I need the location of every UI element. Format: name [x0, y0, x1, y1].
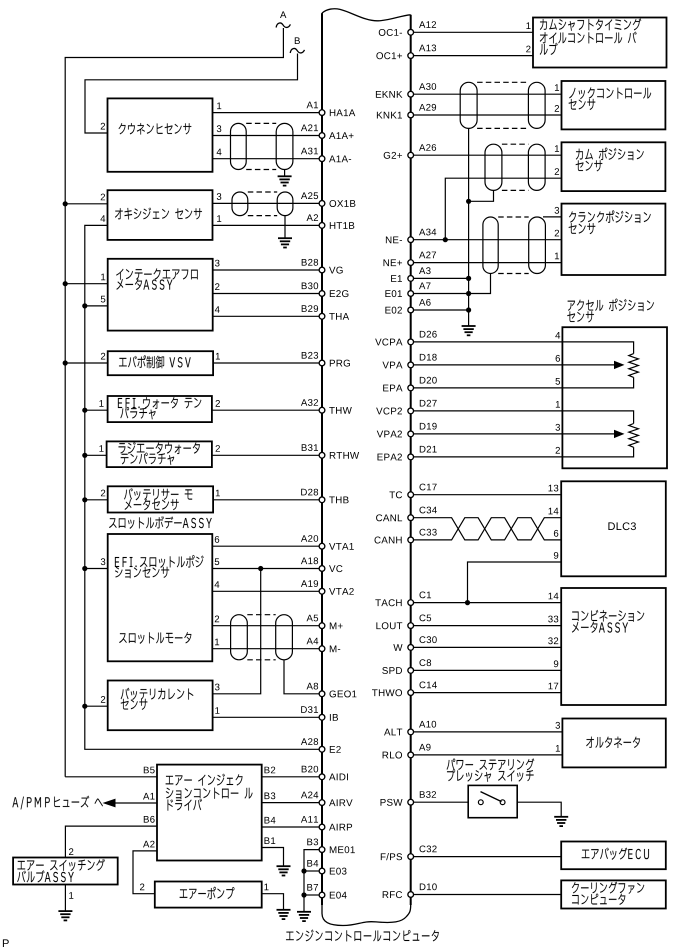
potentiometer 1 resistor element — [629, 354, 639, 378]
shielded cable for crank position sensor — [483, 217, 498, 274]
wire oxygen sensor pin3 to ECU A25 OX1B — [213, 202, 320, 204]
shielded cable for oxygen sensor pin 3 — [232, 192, 248, 216]
shield drain wire to ECU A8 GEO1 — [284, 660, 319, 694]
air switching valve assy box — [13, 858, 118, 885]
wire ECU D10 RFC to cooling fan computer — [413, 894, 561, 896]
ECU right pin C32 F/PS — [408, 854, 414, 860]
ECU right pin D20 EPA — [408, 385, 414, 391]
ECU right pin C17 TC — [408, 492, 414, 498]
wire ECU D19 VPA2 to pot2 wiper arrow — [413, 433, 615, 435]
cam position sensor box — [562, 142, 666, 191]
junction dot battery thermo — [82, 497, 87, 502]
wire ECU D26 VCPA to accel sensor pin4 and pot1 top — [413, 342, 633, 354]
switch lever — [481, 792, 502, 802]
wire evap VSV pin2 to +B bus — [65, 362, 108, 364]
wire intake pin4 to ECU B29 THA — [213, 315, 320, 317]
pot2 wiper arrow — [614, 430, 625, 438]
wire radiator water temp pin1 to E2 bus — [85, 454, 107, 456]
wire ECU A12 OC1- to cam valve pin1 — [413, 31, 533, 33]
wire ECU B32 PSW to switch — [413, 801, 468, 803]
sensor ground stem — [468, 310, 470, 326]
wire driver A1 to A/PMP fuse with arrow — [113, 802, 157, 804]
wire ECU A26 G2+ to cam position sensor pin1 — [413, 154, 561, 156]
wire pot2 bottom to ECU D21 EPA2 pin2 — [413, 447, 633, 457]
wire driver B6 down to air switching valve pin2 — [65, 826, 157, 857]
ECU left pin B20 AIDI — [319, 774, 325, 780]
wire valve pin1 to ground — [64, 885, 66, 912]
throttle body assy label — [109, 518, 116, 528]
air pump box — [155, 882, 262, 908]
wire throttle pin6 to ECU A20 VTA1 — [212, 545, 319, 547]
wire VC junction down to battery current sensor pin3 — [213, 569, 261, 694]
wire cam position sensor pin2 to NE- junction — [445, 178, 561, 240]
wire intake pin5 to E2 bus — [85, 305, 108, 307]
ECU left pin A19 VTA2 — [319, 588, 325, 594]
crank shield drain to E01 junction — [469, 274, 491, 294]
ground — [278, 176, 292, 185]
wire evap VSV pin1 to ECU B23 PRG — [213, 362, 319, 364]
ECU left pin A20 VTA1 — [319, 543, 325, 549]
wire driver B1 to ground — [262, 848, 284, 867]
intake air flow meter assy box — [108, 259, 213, 331]
accelerator position sensor label — [568, 301, 575, 311]
ECU right pin C8 SPD — [408, 668, 414, 674]
wire driver A2 to air pump pin2 — [133, 851, 157, 894]
junction dot throttle pin3 — [82, 566, 87, 571]
junction dot cam shield drain — [466, 199, 471, 204]
wire ECU A27 NE+ to crank sensor pin1 — [413, 262, 561, 264]
ground for sensor grounds E1 E01 E02 — [462, 326, 476, 335]
wire intake pin1 to +B bus — [65, 283, 108, 285]
knock control sensor box — [562, 81, 666, 129]
wire E04 to ground bus — [304, 894, 319, 896]
ECU right pin D26 VCPA — [408, 339, 414, 345]
ground for air pump — [277, 910, 291, 919]
wire bus E2 sensor-ground from oxygen sensor pin 4 to ECU pin A28 E2 — [85, 225, 319, 749]
junction dot EFI water temp — [82, 408, 87, 413]
cooling fan computer box — [561, 880, 666, 908]
ECU left pin B23 PRG — [319, 360, 325, 366]
wire battery current pin2 to E2 bus — [85, 705, 108, 707]
wire EFI water temp pin1 to E2 bus — [85, 409, 108, 411]
wire ECU A13 OC1+ to cam valve pin2 — [413, 55, 533, 57]
ECU right pin A26 G2+ — [408, 152, 414, 158]
wire throttle pin4 to ECU A19 VTA2 — [212, 590, 319, 592]
wire bus A (+B) from break A — [65, 28, 283, 777]
wire ECU D27 VCP2 to accel sensor pin1 and pot2 top — [413, 411, 633, 424]
ECU left pin A2 HT1B — [319, 223, 325, 229]
ECU right pin A9 RLO — [408, 752, 414, 758]
wire intake pin2 to ECU B30 E2G — [213, 293, 320, 295]
wire intake pin3 to ECU B28 VG — [213, 269, 320, 271]
ECU left pin A11 AIRP — [319, 824, 325, 830]
wire oxygen sensor pin2 to +B bus — [65, 203, 107, 205]
pot1 wiper arrow — [614, 361, 625, 369]
ground for driver B1 — [277, 866, 291, 875]
ECU right pin C30 W — [408, 645, 414, 651]
ECU left pin A4 M- — [319, 646, 325, 652]
power steering pressure switch box — [468, 785, 517, 817]
wire ECU A30 EKNK to knock sensor pin1 — [413, 93, 561, 95]
wire switch to ground — [517, 802, 561, 817]
airbag ECU box — [561, 842, 666, 870]
wire ECU C8 SPD to meter pin9 — [413, 669, 561, 671]
ECU left pin B3 ME01 — [319, 847, 325, 853]
shielded cable for cam position sensor — [485, 144, 502, 190]
ECU right pin C1 TACH — [408, 600, 414, 606]
ECU left pin B4 E03 — [319, 868, 325, 874]
ECU left pin B29 THA — [319, 313, 325, 319]
ECU left pin A8 GEO1 — [319, 691, 325, 697]
knock shield drain down to sensor ground junction — [468, 128, 470, 310]
wire DLC3 pin9 down to TACH wire — [468, 562, 562, 603]
wire pot1 bottom to ECU D20 EPA pin5 — [413, 377, 633, 388]
ECU left pin A32 THW — [319, 407, 325, 413]
page letter P — [3, 939, 9, 947]
ECU right pin C34 CANL — [408, 515, 414, 521]
ECU right pin C5 LOUT — [408, 623, 414, 629]
cam shield drain to knock drain junction — [469, 190, 494, 201]
junction dot on NE- wire — [443, 237, 448, 242]
ECU right pin D10 RFC — [408, 892, 414, 898]
shielded cable for knock sensor — [460, 82, 477, 128]
wire ME01 from ECU to ground bus — [304, 850, 319, 912]
wire driver B2 to ECU B20 AIDI — [262, 776, 320, 778]
wire EFI water temp pin2 to ECU A32 THW — [212, 409, 320, 411]
ECU left pin D28 THB — [319, 497, 325, 503]
camshaft timing oil control valve box — [533, 18, 667, 68]
break symbol B — [290, 48, 304, 53]
wire ECU C32 F/PS to airbag ECU — [413, 856, 561, 858]
EFI water temperature sensor box — [108, 396, 212, 422]
radiator water temperature sensor box — [107, 441, 212, 467]
combination meter assy box — [561, 588, 666, 705]
ECU left pin A24 AIRV — [319, 800, 325, 806]
battery current sensor box — [108, 681, 213, 731]
junction dot intake pin1 — [63, 281, 68, 286]
junction dot evap pin2 — [63, 360, 68, 365]
potentiometer 2 resistor element — [629, 424, 639, 448]
junction dot oxygen pin2 — [63, 201, 68, 206]
ECU left pin A1 HA1A — [319, 110, 325, 116]
ECU right pin C14 THWO — [408, 690, 414, 696]
ground for air switching valve — [58, 911, 72, 920]
wire driver B3 to ECU A24 AIRV — [262, 802, 320, 804]
wire driver B4 to ECU A11 AIRP — [262, 826, 320, 828]
ground for ME01 E03 E04 — [297, 912, 311, 921]
ECU left pin A25 OX1B — [319, 201, 325, 207]
crank position sensor box — [562, 204, 666, 275]
evap control VSV box — [108, 351, 213, 375]
shielded cable for throttle motor wires — [231, 615, 248, 660]
ECU right pin D18 VPA — [408, 362, 414, 368]
engine control computer label — [286, 932, 294, 941]
wire ECU D18 VPA to pot1 wiper arrow — [413, 364, 615, 366]
ECU right pin A10 ALT — [408, 729, 414, 735]
ECU right pin D19 VPA2 — [408, 431, 414, 437]
throttle body box with throttle position sensor and throttle motor — [108, 534, 213, 661]
junction dot on TACH wire — [465, 600, 470, 605]
wire ECU A34 NE- to crank sensor pin2 — [413, 239, 561, 241]
wire air pump pin1 to ground — [262, 894, 284, 910]
wire A/F sensor pin1 to ECU A1 HA1A — [213, 112, 320, 114]
wire throttle motor pin1 to ECU A4 M- — [212, 648, 319, 650]
junction dot radiator water temp — [82, 453, 87, 458]
wire ECU A9 RLO to alternator pin1 — [413, 754, 562, 756]
junction dot intake pin5 — [82, 303, 87, 308]
ECU right pin A30 EKNK — [408, 91, 414, 97]
ECU left pin A18 VC — [319, 566, 325, 572]
ECU left pin B28 VG — [319, 267, 325, 273]
twisted pair CANH wire to DLC3 pin6 — [413, 518, 561, 540]
junction dot battery current pin2 — [82, 704, 87, 709]
ECU right pin A6 E02 — [408, 307, 414, 313]
alternator box — [562, 719, 665, 768]
ECU left pin A28 E2 — [319, 746, 325, 752]
ECU left pin A21 A1A+ — [319, 133, 325, 139]
wire ECU A7 E01 to sensor ground junction — [413, 293, 468, 295]
ECU right pin C33 CANH — [408, 537, 414, 543]
wire driver B5 to +B bus — [65, 776, 157, 778]
wire ECU A29 KNK1 to knock sensor pin2 — [413, 114, 561, 116]
wire A/F sensor pin4 to ECU A31 A1A- — [213, 158, 320, 160]
junction dot on VC wire — [258, 566, 263, 571]
ECU right pin A12 OC1- — [408, 29, 414, 35]
ECU right pin B32 PSW — [408, 799, 414, 805]
arrow to A/PMP fuse — [103, 799, 116, 808]
junction dot E03 — [301, 868, 306, 873]
wire throttle pin5 to ECU A18 VC — [212, 568, 319, 570]
wire radiator water temp pin2 to ECU B31 RTHW — [212, 454, 320, 456]
ECU left pin B31 RTHW — [319, 452, 325, 458]
shield drain to ground — [284, 216, 286, 239]
ECU right pin D21 EPA2 — [408, 454, 414, 460]
air injection control driver box — [157, 765, 262, 861]
ECU left pin A31 A1A- — [319, 156, 325, 162]
wire battery thermo pin1 to ECU D28 THB — [213, 499, 319, 501]
ground for power steering switch — [554, 817, 568, 826]
shielded cable for A/F sensor pins 3,4 — [231, 123, 247, 169]
power steering pressure switch label — [447, 759, 456, 770]
ECU connector body (engine control computer) — [321, 13, 323, 905]
ECU right pin A34 NE- — [408, 237, 414, 243]
battery thermo sensor box — [108, 486, 213, 512]
junction dot E04 — [301, 892, 306, 897]
ECU left pin B30 E2G — [319, 291, 325, 297]
wire battery current pin1 to ECU D31 IB — [213, 716, 320, 718]
wire ECU C30 W to meter pin32 — [413, 646, 561, 648]
wire ECU A3 E1 to sensor ground junction — [413, 277, 468, 279]
wire E03 to ground bus — [304, 870, 319, 872]
wire ECU A6 E02 to sensor ground junction — [413, 309, 468, 311]
shield drain to ground — [284, 170, 286, 177]
ground — [278, 238, 292, 247]
ECU left pin D31 IB — [319, 714, 325, 720]
ECU right pin A27 NE+ — [408, 260, 414, 266]
wire A/F sensor pin3 to ECU A21 A1A+ — [213, 135, 320, 137]
DLC3 box — [561, 481, 666, 576]
ECU right pin A13 OC1+ — [408, 53, 414, 59]
wire ECU C17 TC to DLC3 pin13 — [413, 494, 561, 496]
ECU right pin A3 E1 — [408, 276, 414, 282]
wire throttle sensor pin3 to E2 bus — [85, 568, 108, 570]
ECU right pin A29 KNK1 — [408, 112, 414, 118]
twisted pair CANL wire to DLC3 pin14 — [413, 518, 561, 540]
wire ECU C5 LOUT to meter pin33 — [413, 625, 561, 627]
wire battery thermo pin2 to E2 bus — [85, 499, 108, 501]
wire ECU C14 THWO to meter pin17 — [413, 692, 561, 694]
wire bus B from break B to air-fuel sensor pin 2 — [85, 54, 298, 134]
air-fuel ratio sensor box (kuunenhi sensor) — [108, 98, 213, 171]
switch contacts — [478, 800, 483, 805]
wire ECU A10 ALT to alternator pin3 — [413, 731, 562, 733]
ECU right pin A7 E01 — [408, 291, 414, 297]
ECU left pin B7 E04 — [319, 892, 325, 898]
crank sensor shield to pin3 — [543, 216, 562, 218]
oxygen sensor box — [108, 190, 213, 240]
ECU right pin D27 VCP2 — [408, 408, 414, 414]
wire throttle motor pin2 to ECU A5 M+ — [212, 625, 319, 627]
accelerator position sensor box — [562, 327, 667, 468]
wire ECU C1 TACH to meter pin14 — [413, 602, 561, 604]
wire oxygen sensor pin1 to ECU A2 HT1B — [213, 224, 320, 226]
break symbol A — [276, 23, 290, 28]
ECU left pin A5 M+ — [319, 623, 325, 629]
